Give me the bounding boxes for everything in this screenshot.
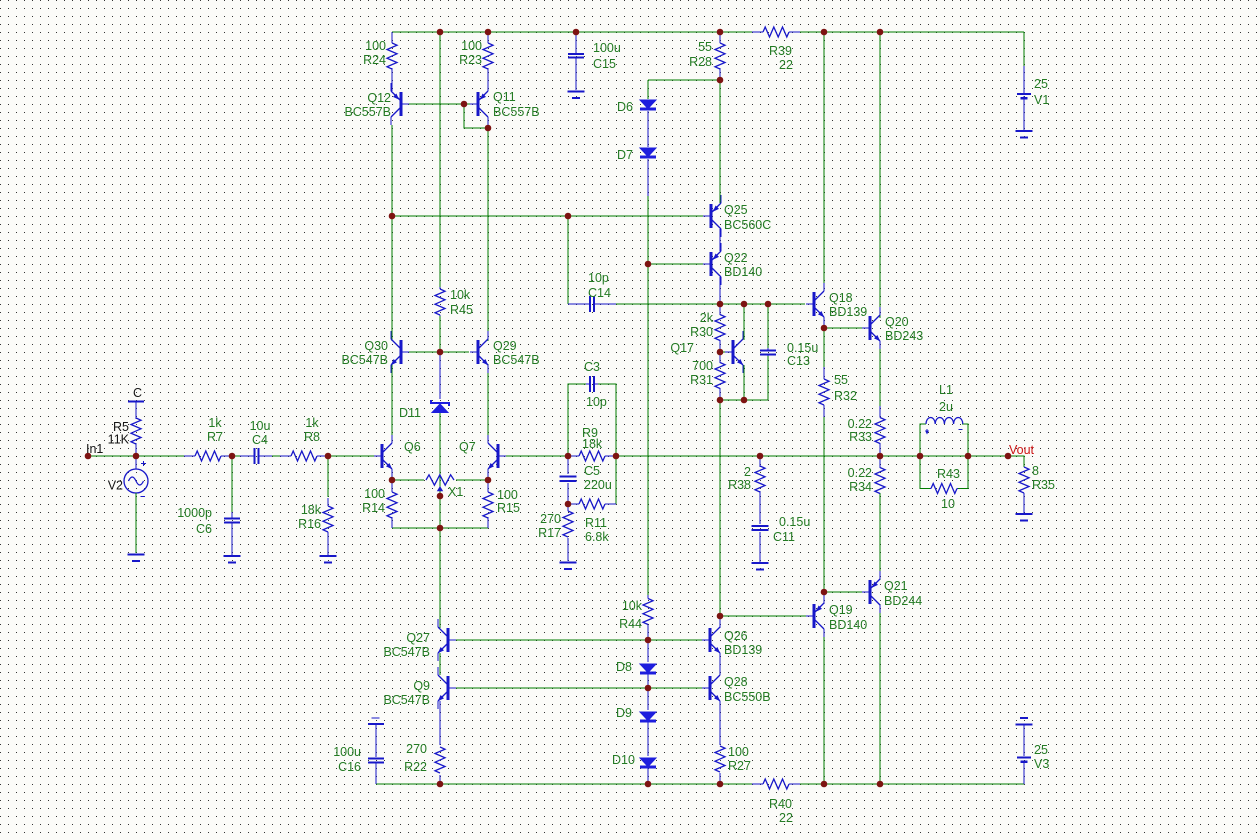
svg-text:V1: V1 [1034, 93, 1049, 107]
junction dot In1 terminal [85, 453, 92, 460]
wire R33 to output node [879, 443, 881, 456]
svg-text:10k: 10k [450, 288, 471, 302]
svg-text:Q30: Q30 [364, 339, 388, 353]
svg-text:BC557B: BC557B [493, 105, 540, 119]
svg-text:D6: D6 [617, 100, 633, 114]
wire Q7 base to node [506, 455, 568, 457]
wire D11 anode through pot X1 [439, 413, 441, 487]
wire D9 to D10 [647, 722, 649, 756]
resistor R8 [291, 451, 317, 461]
wire Q26 collector lead [719, 616, 721, 628]
svg-text:R16: R16 [298, 517, 321, 531]
resistor R32 [819, 379, 829, 405]
wire Q26 collector node y616 to Q19 base [720, 615, 806, 617]
wire branch down to D6 [647, 80, 649, 99]
wire L1 frame right [962, 424, 968, 456]
svg-text:Q12: Q12 [367, 91, 391, 105]
svg-text:10p: 10p [586, 395, 607, 409]
svg-text:BD140: BD140 [724, 265, 762, 279]
resistor R9 [579, 451, 605, 461]
junction dot junction rail x440 [437, 29, 444, 36]
wire Q7 emitter to node [487, 469, 489, 480]
wire R34 top lead [879, 456, 881, 468]
wire R28 to D-chain node [719, 69, 721, 80]
svg-text:220u: 220u [584, 478, 612, 492]
wire D7 chain to bias node [647, 196, 649, 264]
wire Q26 emitter to Q28 collector [719, 653, 721, 675]
svg-text:R24: R24 [363, 53, 386, 67]
junction dot junction D7/Q22 base [645, 261, 652, 268]
transistor Q19 [813, 604, 816, 628]
svg-text:BC547B: BC547B [493, 353, 540, 367]
transistor Q9 [447, 676, 450, 700]
wire R38 to C11 [759, 491, 761, 524]
svg-text:6.8k: 6.8k [585, 530, 609, 544]
junction dot junction rail x824 [821, 29, 828, 36]
wire y640 node to Q26 base [648, 639, 703, 641]
resistor R5 [131, 418, 141, 444]
svg-text:C4: C4 [252, 433, 268, 447]
diode D7 [640, 148, 656, 157]
junction dot junction rail x880 [877, 29, 884, 36]
wire top supply rail right section [800, 31, 1024, 33]
resistor R27 [715, 746, 725, 772]
svg-text:Q20: Q20 [885, 315, 909, 329]
diode D9 [640, 712, 656, 721]
wire Q20 collector up to rail [879, 32, 881, 318]
wire emitter node to pot X1 left [392, 479, 424, 481]
ground below C15 [568, 90, 585, 92]
transistor Q11 [477, 92, 480, 116]
transistor Q27 [447, 628, 450, 652]
junction dot junction Q11 b-c tie [485, 125, 492, 132]
wire node y80 down to Q25 emitter [719, 80, 721, 203]
junction dot junction Q12/Q11 bases [461, 101, 468, 108]
wire y216 node down to C14 [567, 216, 569, 304]
junction dot junction bias y640 [645, 637, 652, 644]
svg-text:X1: X1 [448, 485, 463, 499]
potentiometer X1 [426, 475, 454, 485]
wire R22 bottom lead [439, 775, 441, 784]
wire emitter resistors bottom rail [392, 527, 488, 529]
svg-text:100u: 100u [333, 745, 361, 759]
wire Q19 emitter to node y592 [823, 592, 825, 604]
wire output line R9 right to Vout area [616, 455, 1024, 457]
svg-text:Q19: Q19 [829, 603, 853, 617]
wire y640 bias to Q27 base [454, 639, 648, 641]
wire D10 to bottom rail [647, 768, 649, 784]
svg-text:BC547B: BC547B [383, 693, 430, 707]
resistor R39 [763, 27, 789, 37]
capacitor C11 [752, 525, 769, 527]
diode D10 [640, 758, 656, 767]
junction dot junction R9 right [613, 453, 620, 460]
svg-text:R43: R43 [937, 467, 960, 481]
svg-text:270: 270 [540, 512, 561, 526]
svg-text:BD244: BD244 [884, 594, 922, 608]
junction dot junction y216 x392 [389, 213, 396, 220]
wire Q29 emitter to Q7 collector [487, 364, 489, 443]
junction dot junction R28/D6 branch [717, 77, 724, 84]
junction dot junction Q19 emitter [821, 589, 828, 596]
junction dot junction X1 wiper [437, 493, 444, 500]
svg-text:Q29: Q29 [493, 339, 517, 353]
capacitor C14 [589, 296, 591, 312]
node C terminal bar [128, 401, 144, 403]
svg-text:2k: 2k [700, 311, 714, 325]
svg-text:R27: R27 [728, 759, 751, 773]
wire Q18 collector up to rail [823, 32, 825, 291]
wire Q17 emitter down [743, 365, 745, 400]
wire node to C5 [567, 456, 569, 474]
svg-text:R23: R23 [459, 53, 482, 67]
wire node to C6 [231, 456, 233, 512]
wire R17 lead to ground [567, 538, 569, 561]
svg-text:0.22: 0.22 [848, 466, 872, 480]
resistor R28 [715, 43, 725, 69]
transistor Q22 [710, 252, 713, 276]
svg-text:18k: 18k [582, 437, 603, 451]
wire R5 to input node [135, 444, 137, 456]
capacitor C15 plates [568, 53, 584, 55]
svg-text:8: 8 [1032, 464, 1039, 478]
junction dot junction Q7 emitter [485, 477, 492, 484]
resistor R16 [323, 506, 333, 532]
resistor R34 [875, 468, 885, 494]
resistor R24 [387, 43, 397, 69]
transistor Q26 [709, 628, 712, 652]
transistor Q6 [381, 444, 384, 468]
resistor R7 [195, 451, 221, 461]
wire bottom rail left section [376, 783, 752, 785]
svg-text:D11: D11 [399, 406, 421, 420]
ground below V2 [128, 553, 145, 555]
svg-text:18k: 18k [301, 503, 322, 517]
wire R30 to R31 node [719, 340, 721, 363]
wire R31 to y400 rail [719, 388, 721, 400]
junction dot junction tail [437, 525, 444, 532]
wire D9 top lead [647, 688, 649, 710]
transistor Q30 [400, 340, 403, 364]
junction dot junction Q18 emitter [821, 325, 828, 332]
svg-text:100: 100 [497, 488, 518, 502]
junction dot junction R33/R34 [877, 453, 884, 460]
resistor R23 [483, 43, 493, 69]
svg-text:Q7: Q7 [459, 440, 476, 454]
wire D11 cathode lead [439, 352, 441, 399]
transistor Q21 [869, 580, 872, 604]
junction dot junction rail x880 bottom [877, 781, 884, 788]
junction dot junction rail R28 [717, 29, 724, 36]
wire Q12 base to Q11 base [407, 103, 470, 105]
junction dot junction Q17 base [717, 349, 724, 356]
svg-text:1000p: 1000p [177, 506, 212, 520]
ground below R35 [1016, 513, 1033, 515]
wire x440 top rail to R45 [439, 32, 441, 287]
wire main line y=456 C4 segment right [272, 455, 280, 457]
wire Q18 emitter node to Q20 base [824, 327, 862, 329]
resistor R17 [563, 511, 573, 537]
wire input node In1 to R7 [88, 455, 184, 457]
ground below R17 [560, 561, 577, 563]
wire L1 frame left [920, 424, 926, 456]
svg-text:R39: R39 [769, 44, 792, 58]
wire R43 frame right [958, 456, 968, 489]
svg-text:R30: R30 [690, 325, 713, 339]
junction dot junction Q17 collector [741, 301, 748, 308]
junction dot junction rail x488 [485, 29, 492, 36]
wire V2 to ground [135, 493, 137, 553]
svg-text:R15: R15 [497, 501, 520, 515]
wire D8 top lead [647, 640, 649, 662]
wire R34 down to Q21 emitter [879, 493, 881, 580]
svg-text:BC547B: BC547B [341, 353, 388, 367]
transistor Q7 [497, 444, 500, 468]
svg-text:R32: R32 [834, 389, 857, 403]
svg-text:R40: R40 [769, 797, 792, 811]
wire Q27 emitter to Q9 collector [439, 653, 441, 675]
transistor Q17 [732, 340, 735, 364]
junction dot junction rail R27 [717, 781, 724, 788]
svg-text:55: 55 [698, 40, 712, 54]
wire node to R32 [823, 328, 825, 367]
resistor R45 [435, 289, 445, 315]
wire D6 to D7 [647, 111, 649, 147]
capacitor C5 plates [560, 475, 577, 477]
wire X1 wiper stem to tail node [439, 491, 441, 528]
wire Q18 emitter to node [823, 317, 825, 328]
wire Q11 base-collector tie [464, 104, 488, 128]
transistor Q12 [400, 92, 403, 116]
svg-text:R35: R35 [1032, 478, 1055, 492]
svg-text:D7: D7 [617, 148, 633, 162]
wire y688 bias to Q9 base [454, 687, 648, 689]
junction dot junction R9 left [565, 453, 572, 460]
svg-text:55: 55 [834, 373, 848, 387]
svg-text:Q6: Q6 [404, 440, 421, 454]
svg-text:BC547B: BC547B [383, 645, 430, 659]
wire C6 to ground [231, 523, 233, 555]
capacitor C13 [760, 349, 776, 351]
svg-text:Q22: Q22 [724, 251, 748, 265]
wire y400 rail [720, 399, 768, 401]
wire Q17 collector up [743, 304, 745, 340]
ground below C6 [224, 555, 241, 557]
svg-text:R17: R17 [538, 526, 561, 540]
svg-text:0.15u: 0.15u [787, 341, 818, 355]
svg-text:Q17: Q17 [670, 341, 694, 355]
wire C3 loop right side [598, 384, 616, 456]
resistor R14 [387, 492, 397, 518]
battery V3 with top ground [1020, 717, 1028, 719]
svg-text:R45: R45 [450, 303, 473, 317]
junction dot junction R8/R16 [325, 453, 332, 460]
wire Q22 collector to VAS node [719, 277, 721, 304]
svg-text:V3: V3 [1034, 757, 1049, 771]
wire pot X1 right to emitter node [456, 479, 488, 481]
svg-text:100: 100 [728, 745, 749, 759]
svg-text:D8: D8 [616, 660, 632, 674]
battery V1 [1023, 66, 1025, 93]
svg-text:R31: R31 [690, 373, 713, 387]
resistor R43 [931, 484, 957, 494]
junction dot junction bias y688 [645, 685, 652, 692]
junction dot junction L1 left [917, 453, 924, 460]
wire R45 to Q30/Q29 base node [439, 316, 441, 352]
capacitor C4 [254, 448, 256, 464]
junction dot junction rail x824 bottom [821, 781, 828, 788]
wire C11 to ground [759, 532, 761, 562]
capacitor C16 electrolytic [372, 717, 380, 719]
wire top supply rail left section [392, 31, 752, 33]
wire C13 bottom lead [767, 356, 769, 400]
junction dot junction L1 right [965, 453, 972, 460]
wire node y592 to Q21 base [824, 591, 862, 593]
svg-text:C16: C16 [338, 760, 361, 774]
wire Q30 base to Q29 base [409, 351, 469, 353]
wire R38 top lead [759, 456, 761, 467]
junction dot junction rail C15 [573, 29, 580, 36]
svg-text:270: 270 [406, 742, 427, 756]
svg-text:R33: R33 [849, 430, 872, 444]
svg-text:C6: C6 [196, 522, 212, 536]
wire y216 bases rail to Q25 base [392, 215, 703, 217]
resistor R31 [715, 363, 725, 389]
junction dot junction y400 Q17 emitter [741, 397, 748, 404]
svg-text:BC560C: BC560C [724, 218, 771, 232]
resistor R38 [755, 466, 765, 492]
junction dot junction rail R22 [437, 781, 444, 788]
wire Q17 base stub [720, 351, 725, 353]
svg-text:1k: 1k [208, 416, 222, 430]
svg-text:D9: D9 [616, 706, 632, 720]
junction dot junction Q26 collector [717, 613, 724, 620]
wire x392 Q12 collector down to y216 [391, 125, 393, 216]
ground below R16 [320, 555, 337, 557]
junction dot junction R7/C4/C6 [229, 453, 236, 460]
svg-text:1k: 1k [305, 416, 319, 430]
wire D8 to node y688 [647, 674, 649, 688]
wire Q9 emitter to R22 [439, 701, 441, 745]
svg-text:C13: C13 [787, 354, 810, 368]
junction dot junction y216 x568 [565, 213, 572, 220]
svg-text:C: C [133, 386, 142, 400]
svg-text:R11: R11 [585, 516, 607, 530]
resistor R22 [435, 747, 445, 773]
svg-text:C5: C5 [584, 464, 600, 478]
wire Q21 collector to bottom rail [879, 604, 881, 784]
svg-text:10k: 10k [622, 599, 643, 613]
svg-text:R44: R44 [619, 617, 642, 631]
zener diode D11 [431, 400, 449, 406]
svg-text:L1: L1 [939, 383, 953, 397]
junction dot junction V2/R5 [133, 453, 140, 460]
svg-text:Q9: Q9 [413, 679, 430, 693]
svg-text:R22: R22 [404, 760, 427, 774]
svg-text:0.22: 0.22 [848, 417, 872, 431]
wire R16 to ground [327, 532, 329, 555]
svg-text:10: 10 [941, 497, 955, 511]
wire C15 to ground [575, 58, 577, 90]
wire bias node to Q22 base [648, 263, 703, 265]
wire R30 top node [719, 304, 721, 315]
svg-text:In1: In1 [86, 442, 103, 456]
ground below V1 [1016, 130, 1033, 132]
svg-text:R8: R8 [304, 430, 320, 444]
wire R8 to Q6 base [328, 455, 374, 457]
junction dot junction R45/D11/bases [437, 349, 444, 356]
wire x488 Q11 collector to Q29 collector [487, 125, 489, 341]
svg-text:R38: R38 [728, 478, 751, 492]
wire R35 to ground [1023, 493, 1025, 513]
transistor Q28 [709, 676, 712, 700]
wire Q19 collector to bottom rail [823, 629, 825, 784]
wire Q20 emitter to R33 [879, 341, 881, 406]
wire R14 to bottom [391, 517, 393, 528]
wire y688 node to Q28 base [648, 687, 703, 689]
resistor R35 [1019, 467, 1029, 493]
junction dot junction C5/R11/R17 [565, 501, 572, 508]
wire VAS node down to y456 crossing to y616 [719, 400, 721, 616]
transistor Q18 [813, 292, 816, 316]
wire tail node down to Q27 collector [439, 528, 441, 628]
svg-text:25: 25 [1034, 743, 1048, 757]
svg-text:2: 2 [744, 465, 751, 479]
svg-text:Q21: Q21 [884, 579, 908, 593]
wire D6/D7 branch top [648, 79, 720, 81]
wire R15 to bottom [487, 517, 489, 528]
svg-text:22: 22 [779, 58, 793, 72]
wire Q25 collector to Q22 emitter [719, 229, 721, 251]
wire R23 to Q11 emitter [487, 69, 489, 91]
wire D7 to bias node y264 lead [647, 159, 649, 196]
svg-text:R14: R14 [362, 501, 385, 515]
transistor Q25 [710, 204, 713, 228]
svg-text:C3: C3 [584, 360, 600, 374]
svg-text:BC550B: BC550B [724, 690, 771, 704]
wire R44 to node y640 [647, 628, 649, 640]
svg-text:Q26: Q26 [724, 629, 748, 643]
svg-text:Q18: Q18 [829, 291, 853, 305]
svg-text:100u: 100u [593, 41, 621, 55]
svg-text:700: 700 [692, 359, 713, 373]
svg-text:C15: C15 [593, 57, 616, 71]
junction dot junction VAS out [717, 301, 724, 308]
inductor L1 [926, 418, 963, 425]
junction dot junction Q6 emitter [389, 477, 396, 484]
wire R24 to Q12 emitter [391, 69, 393, 91]
svg-text:BD140: BD140 [829, 618, 867, 632]
junction dot junction rail D10 [645, 781, 652, 788]
svg-text:Q28: Q28 [724, 675, 748, 689]
wire Q6 emitter to node [391, 469, 393, 480]
svg-text:22: 22 [779, 811, 793, 825]
junction dot junction R38 top [757, 453, 764, 460]
svg-text:2u: 2u [939, 400, 953, 414]
wire R32 down to Q19 emitter node [823, 417, 825, 592]
svg-text:10u: 10u [250, 419, 271, 433]
svg-text:BC557B: BC557B [344, 105, 391, 119]
svg-text:100: 100 [365, 39, 386, 53]
junction dot junction y400 R31 [717, 397, 724, 404]
resistor R40 [763, 779, 789, 789]
wire R27 to bottom rail [719, 773, 721, 784]
svg-text:R28: R28 [689, 55, 712, 69]
svg-text:R7: R7 [207, 430, 223, 444]
svg-text:Q27: Q27 [406, 631, 430, 645]
svg-text:Vout: Vout [1009, 443, 1035, 457]
wire x648 long drop to R44 [647, 264, 649, 595]
